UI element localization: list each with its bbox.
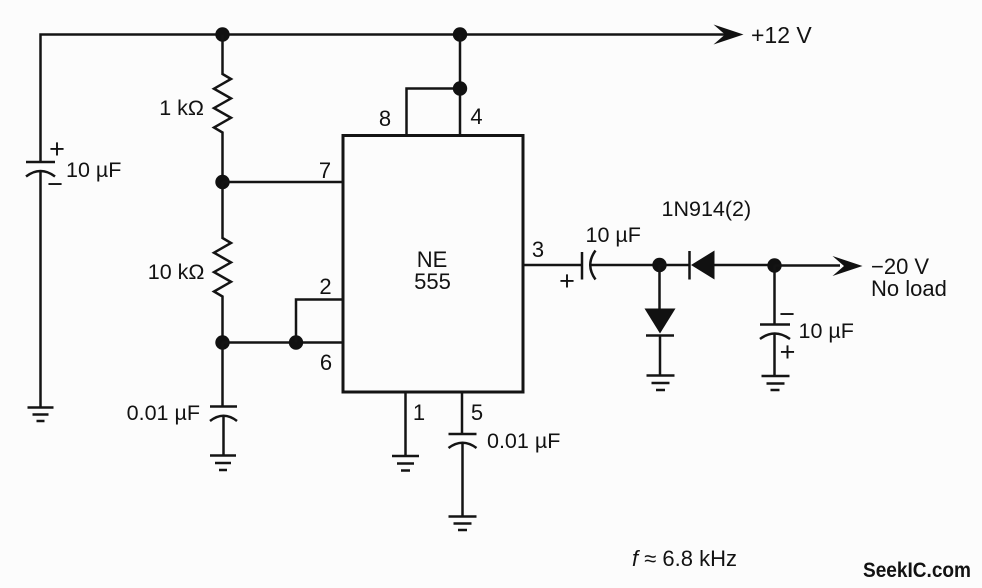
wire C4 to ground [461, 444, 464, 517]
svg-text:8: 8 [379, 106, 391, 131]
svg-text:−: − [47, 169, 63, 199]
svg-text:1: 1 [413, 400, 425, 425]
wire pin 3 output [523, 264, 582, 267]
wire pin 2 [296, 300, 343, 343]
node rail/pin4 junction [453, 27, 467, 41]
diode D1 triangle [691, 251, 715, 280]
wire C2 to ground [222, 417, 225, 456]
ground (D2) [647, 376, 675, 391]
wire pin 7 [223, 181, 344, 184]
wire pin 1 to ground [404, 392, 407, 456]
capacitor C3 curved plate [590, 251, 595, 280]
svg-text:No load: No load [871, 276, 947, 301]
wire pin 6 [223, 341, 344, 344]
svg-text:3: 3 [532, 237, 544, 262]
node R2/C2/pin6 junction [215, 335, 229, 349]
wire R2 junction to C2 [221, 343, 224, 407]
svg-text:1N914(2): 1N914(2) [662, 197, 752, 221]
wire pin 4 [459, 35, 462, 136]
svg-text:6: 6 [320, 350, 332, 375]
node pin2/pin6 junction [289, 335, 303, 349]
svg-text:7: 7 [319, 158, 331, 183]
wire node to D1 [660, 264, 690, 267]
svg-text:555: 555 [414, 269, 451, 294]
svg-text:SeekIC.com: SeekIC.com [863, 559, 971, 582]
op-amp U1 NE555 timer box [343, 136, 523, 393]
wire C1 to ground [39, 172, 42, 408]
svg-text:10 µF: 10 µF [66, 158, 121, 182]
capacitor C2 curved plate [210, 416, 237, 421]
svg-text:1 kΩ: 1 kΩ [159, 96, 204, 120]
capacitor C5 flat plate [760, 323, 790, 326]
resistor R1 1 kOhm [214, 35, 231, 183]
node rail/R1 junction [215, 27, 229, 41]
capacitor C1 10uF flat plate [26, 161, 55, 164]
capacitor C4 0.01uF flat plate [449, 433, 477, 436]
wire node to D2 [658, 265, 661, 309]
capacitor C2 0.01uF flat plate [210, 405, 237, 408]
wire C3 to node [592, 264, 660, 267]
arrow -20V output head [833, 256, 863, 276]
svg-text:10 µF: 10 µF [586, 223, 641, 247]
ground (C4) [449, 517, 477, 531]
svg-text:10 kΩ: 10 kΩ [148, 260, 205, 284]
wire C5 to ground [773, 335, 776, 377]
ground (C5) [762, 376, 790, 390]
ground (C2) [210, 456, 236, 471]
resistor R2 10 kOhm [214, 182, 231, 343]
wire pin 8 loop [407, 89, 461, 136]
svg-text:+12 V: +12 V [751, 22, 812, 48]
svg-text:2: 2 [319, 274, 331, 299]
svg-text:0.01 µF: 0.01 µF [487, 429, 560, 453]
diode D1 cathode bar [688, 251, 691, 280]
capacitor C1 curved plate [26, 171, 55, 177]
wire output to arrow [775, 264, 841, 267]
ground (pin 1) [392, 456, 419, 471]
capacitor C5 curved plate [760, 334, 790, 340]
svg-text:0.01 µF: 0.01 µF [127, 401, 200, 425]
svg-text:+: + [49, 134, 65, 164]
svg-text:+: + [559, 266, 575, 296]
svg-text:+: + [780, 337, 796, 367]
arrow +12V rail head [714, 25, 744, 45]
wire D1 to output node [715, 264, 775, 267]
svg-text:5: 5 [471, 400, 483, 425]
capacitor C4 curved plate [449, 443, 477, 448]
wire +12V supply rail [41, 35, 738, 163]
node R1/R2/pin7 junction [215, 175, 229, 189]
wire D2 to ground [659, 336, 662, 376]
svg-text:4: 4 [470, 104, 482, 129]
diode D2 triangle [645, 309, 676, 334]
node pin8/pin4 junction [453, 81, 467, 95]
svg-text:f ≈ 6.8 kHz: f ≈ 6.8 kHz [632, 546, 737, 571]
ground (left battery cap) [28, 408, 54, 422]
wire pin 5 to C4 [461, 392, 464, 434]
wire node to C5 [773, 266, 776, 325]
capacitor C3 10uF flat plate [581, 252, 584, 280]
svg-text:10 µF: 10 µF [799, 319, 854, 343]
node D1/C5/output junction [767, 258, 781, 272]
diode D2 cathode bar [646, 334, 674, 337]
node C3/D1/D2 junction [652, 258, 666, 272]
